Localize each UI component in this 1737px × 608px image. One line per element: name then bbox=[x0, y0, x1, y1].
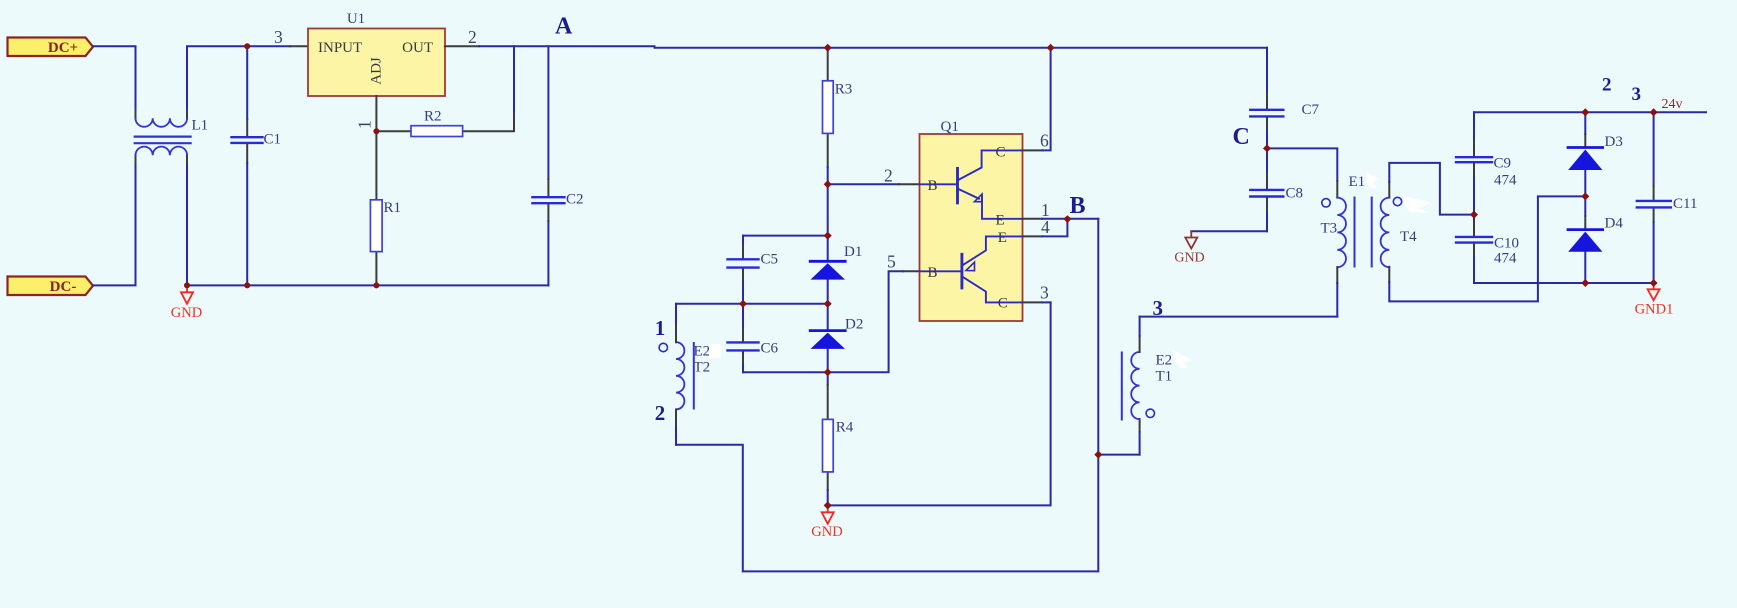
svg-text:OUT: OUT bbox=[402, 40, 433, 56]
capacitor C7 bbox=[1250, 110, 1283, 117]
svg-text:Q1: Q1 bbox=[941, 119, 959, 135]
svg-text:4: 4 bbox=[1041, 217, 1050, 237]
wire bottom right rail bbox=[1474, 282, 1654, 284]
svg-text:474: 474 bbox=[1494, 173, 1517, 189]
svg-text:1: 1 bbox=[355, 120, 375, 129]
junction (R4 bottom / GND) bbox=[824, 501, 832, 509]
wire T1 bottom stub bbox=[1139, 432, 1141, 455]
junction (GND1) bbox=[1650, 279, 1658, 287]
capacitor C1 bbox=[232, 137, 263, 143]
junction (node C) bbox=[1263, 144, 1271, 152]
junction (C9/C10 mid) bbox=[1470, 211, 1478, 219]
wire T4 bottom to D3/D4 mid bbox=[1388, 267, 1390, 282]
ground GND (below R4) bbox=[811, 505, 842, 540]
ground GND (left) bbox=[171, 285, 202, 321]
svg-text:3: 3 bbox=[1153, 296, 1164, 320]
transformer winding T2 bbox=[676, 342, 694, 409]
wire C11 column bbox=[1653, 112, 1655, 186]
junction (D3/D4 mid) bbox=[1581, 192, 1589, 200]
wire C8 bottom to GND bbox=[1191, 230, 1267, 232]
wire C9/C10 column bbox=[1473, 112, 1475, 140]
svg-text:D4: D4 bbox=[1605, 216, 1624, 232]
wire DC+ to L1 top winding bbox=[93, 46, 136, 118]
svg-text:E: E bbox=[996, 212, 1005, 228]
inductor L1 bbox=[135, 118, 191, 155]
svg-text:R1: R1 bbox=[384, 200, 402, 216]
cursor artifact near E2/T2 bbox=[709, 344, 721, 358]
capacitor C10 bbox=[1456, 237, 1492, 243]
wire T2 top horizontal bbox=[676, 303, 828, 305]
wire top rail right part bbox=[655, 47, 1268, 49]
wire D1/D2 column bbox=[827, 184, 829, 260]
junction (R3 bottom) bbox=[824, 180, 832, 188]
wire ADJ pin and R1 column bbox=[375, 96, 377, 131]
wire C5 top horizontal bbox=[743, 235, 828, 237]
svg-text:A: A bbox=[555, 13, 573, 39]
junction (C5/C6 mid) bbox=[739, 300, 747, 308]
ground GND1 bbox=[1635, 283, 1674, 318]
junction (bottom rail at R1) bbox=[373, 282, 379, 288]
svg-text:24v: 24v bbox=[1662, 97, 1683, 112]
junction (D2 bottom / R4 top) bbox=[824, 368, 832, 376]
capacitor C11 bbox=[1637, 201, 1671, 208]
svg-text:U1: U1 bbox=[347, 11, 365, 27]
junction (bottom rail at C1) bbox=[244, 282, 250, 288]
svg-text:2: 2 bbox=[655, 401, 666, 425]
svg-text:1: 1 bbox=[655, 316, 666, 340]
svg-text:GND1: GND1 bbox=[1635, 302, 1674, 318]
core E1 bbox=[1355, 198, 1372, 267]
polarity dot T4 bbox=[1393, 197, 1401, 205]
junction (rail at pin6 riser) bbox=[1047, 44, 1055, 52]
resistor R1 bbox=[370, 200, 382, 252]
svg-text:R2: R2 bbox=[424, 109, 442, 125]
junction (T1 spur) bbox=[1094, 451, 1102, 459]
svg-text:GND: GND bbox=[811, 524, 842, 540]
svg-text:E: E bbox=[998, 230, 1007, 246]
wire top rail to node A and beyond bbox=[479, 45, 655, 47]
junction (C5 top) bbox=[824, 232, 832, 240]
junction (D4 bottom) bbox=[1581, 279, 1589, 287]
svg-text:5: 5 bbox=[887, 252, 896, 272]
winding T3 bbox=[1337, 198, 1346, 268]
svg-text:C11: C11 bbox=[1673, 196, 1697, 212]
junction (D1 bottom) bbox=[824, 300, 832, 308]
cursor artifact near E1 bbox=[1366, 172, 1380, 189]
wire bottom rail bbox=[187, 284, 548, 286]
wire OUT pin stub bbox=[445, 45, 479, 47]
transformer winding T1 bbox=[1122, 352, 1140, 420]
svg-text:L1: L1 bbox=[192, 117, 209, 133]
svg-text:C1: C1 bbox=[264, 132, 282, 148]
svg-text:B: B bbox=[928, 178, 938, 194]
capacitor C6 bbox=[728, 342, 759, 350]
wire R2 right riser to rail bbox=[463, 112, 514, 131]
pin name labels bbox=[928, 144, 1008, 311]
svg-text:6: 6 bbox=[1040, 131, 1049, 151]
svg-text:C2: C2 bbox=[566, 192, 584, 208]
svg-text:3: 3 bbox=[274, 27, 283, 47]
diode D2 bbox=[810, 331, 845, 349]
transistor array Q1 bbox=[920, 134, 1023, 321]
svg-text:T2: T2 bbox=[694, 360, 711, 376]
wire L1 top winding right end up to top rail, to U1 INPUT bbox=[187, 46, 290, 118]
wire Q1 pin 6 bbox=[1023, 149, 1043, 151]
wire node C to T3 top bbox=[1267, 148, 1337, 181]
svg-text:INPUT: INPUT bbox=[318, 40, 362, 56]
svg-text:C7: C7 bbox=[1302, 102, 1320, 118]
diode D3 bbox=[1568, 148, 1603, 171]
svg-text:3: 3 bbox=[1632, 84, 1642, 105]
junction (rail at D3) bbox=[1581, 108, 1589, 116]
junction (rail at C11) bbox=[1650, 108, 1658, 116]
wire top right rail bbox=[1474, 111, 1706, 113]
diode D4 bbox=[1568, 230, 1603, 252]
wire pin stub INPUT bbox=[290, 45, 308, 47]
cursor artifact near T4 bbox=[1404, 196, 1432, 213]
resistor R2 bbox=[411, 126, 463, 137]
port DC- bbox=[8, 277, 94, 296]
wire D3/D4 column bbox=[1584, 112, 1586, 134]
svg-text:C: C bbox=[996, 144, 1006, 160]
svg-text:C9: C9 bbox=[1494, 156, 1512, 172]
svg-text:C8: C8 bbox=[1286, 186, 1304, 202]
wire pin 3 horizontal to T3 bbox=[1140, 316, 1338, 318]
svg-text:T1: T1 bbox=[1156, 369, 1173, 385]
port DC+ bbox=[8, 38, 94, 57]
svg-text:C5: C5 bbox=[761, 252, 779, 268]
svg-text:D2: D2 bbox=[845, 317, 863, 333]
wire L1 bottom winding right end down to bottom rail bbox=[186, 155, 188, 285]
wire Q1 pin 4 bbox=[1023, 235, 1043, 237]
capacitor C9 bbox=[1456, 157, 1492, 162]
wire junction to T1 bbox=[1098, 454, 1139, 456]
svg-text:C6: C6 bbox=[761, 341, 779, 357]
svg-text:GND: GND bbox=[171, 305, 202, 321]
polarity dot T3 bbox=[1322, 199, 1330, 207]
svg-text:D1: D1 bbox=[844, 244, 862, 260]
wire T1 top stub bbox=[1139, 336, 1141, 352]
svg-text:T4: T4 bbox=[1400, 229, 1417, 245]
svg-text:E1: E1 bbox=[1349, 174, 1366, 190]
svg-text:ADJ: ADJ bbox=[369, 57, 385, 85]
ground GND (C8, dark red) bbox=[1174, 231, 1204, 265]
svg-text:2: 2 bbox=[1602, 75, 1612, 96]
svg-text:E2: E2 bbox=[1156, 353, 1173, 369]
wire R4 bottom to Q1 pin 3 riser bbox=[828, 302, 1051, 505]
capacitor C5 bbox=[728, 259, 759, 267]
wire Q1 pin 3 bbox=[1023, 301, 1043, 303]
wire C8 stubs bbox=[1266, 148, 1268, 173]
capacitor C8 bbox=[1250, 190, 1283, 197]
capacitor C2 bbox=[532, 197, 564, 203]
transistor Q1a (NPN) bbox=[920, 150, 1023, 218]
diode D1 bbox=[810, 261, 845, 279]
svg-text:3: 3 bbox=[1040, 283, 1049, 303]
winding T4 bbox=[1381, 198, 1390, 268]
svg-text:GND: GND bbox=[1174, 251, 1204, 266]
wire C1 column bbox=[246, 46, 248, 119]
wire C2 riser bbox=[547, 46, 549, 179]
svg-text:B: B bbox=[1070, 193, 1086, 219]
resistor R3 bbox=[823, 81, 834, 134]
transistor Q1b (PNP) bbox=[920, 236, 1023, 302]
transformer E1 bbox=[1322, 197, 1402, 267]
svg-text:2: 2 bbox=[884, 166, 893, 186]
svg-text:2: 2 bbox=[468, 27, 477, 47]
svg-text:E2: E2 bbox=[694, 344, 711, 360]
svg-text:R4: R4 bbox=[836, 420, 854, 436]
wire T4 top to C9/C10 mid bbox=[1388, 182, 1390, 198]
junction (ADJ/R2) bbox=[373, 128, 379, 134]
wire Q1 pin 1 bbox=[1023, 218, 1043, 220]
wire C7 column from rail bbox=[1266, 48, 1268, 92]
svg-text:C: C bbox=[1233, 124, 1250, 150]
wire DC- to L1 bottom winding bbox=[93, 155, 136, 285]
svg-text:C10: C10 bbox=[1494, 236, 1519, 252]
svg-text:DC-: DC- bbox=[50, 279, 77, 295]
wire T2 bottom stub bbox=[675, 409, 677, 427]
wire L1 winding end stubs bbox=[136, 110, 188, 164]
wire T2 top stub bbox=[675, 304, 677, 324]
resistor R4 bbox=[823, 419, 834, 472]
svg-text:T3: T3 bbox=[1321, 221, 1338, 237]
polarity dot T2 bbox=[659, 343, 667, 351]
polarity dot T1 bbox=[1146, 409, 1154, 417]
wire T2 bottom long run to node B column bbox=[676, 219, 1098, 572]
junction (C1 top) bbox=[244, 43, 250, 49]
svg-text:R3: R3 bbox=[835, 82, 853, 98]
svg-text:474: 474 bbox=[1494, 251, 1517, 267]
wire C6 stubs bbox=[742, 304, 744, 328]
svg-text:D3: D3 bbox=[1605, 134, 1623, 150]
junction (bottom rail at L1/GND) bbox=[184, 282, 190, 288]
wire C6/D2/R4 node to Q1 pin 5 bbox=[743, 271, 903, 372]
wire R2 left bbox=[376, 130, 411, 132]
wire R3 column from rail bbox=[827, 48, 829, 81]
svg-text:C: C bbox=[998, 296, 1008, 312]
wire base of Q1 upper transistor bbox=[828, 183, 899, 185]
wire C5 stubs bbox=[742, 236, 744, 245]
wire T3 bottom to pin3 horizontal bbox=[1336, 267, 1338, 283]
wire node B to riser bbox=[1067, 218, 1098, 220]
regulator U1 bbox=[308, 29, 445, 97]
svg-text:B: B bbox=[928, 265, 938, 281]
junction (node B) bbox=[1063, 215, 1071, 223]
cursor artifact near T1 bbox=[1172, 349, 1193, 368]
junction (rail at R3) bbox=[824, 44, 832, 52]
svg-text:DC+: DC+ bbox=[48, 40, 78, 56]
